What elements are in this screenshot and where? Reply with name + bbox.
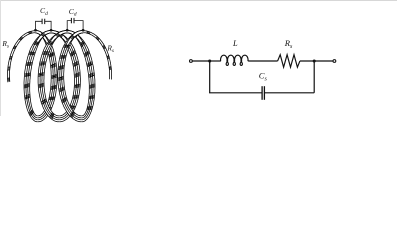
hatching on segment G: [58, 35, 74, 117]
wire: inductor to resistor: [248, 60, 277, 62]
wire segment H: [83, 30, 112, 79]
hatching on segment C: [24, 33, 45, 116]
hatching on segment E: [39, 33, 60, 119]
wire segment B: [36, 30, 58, 122]
inductor L: [221, 55, 249, 65]
wire: node A to inductor: [210, 60, 221, 62]
left input terminal: [190, 60, 193, 63]
node B junction dot: [313, 59, 316, 62]
wire segment E: [38, 30, 67, 122]
node A junction dot: [208, 59, 211, 62]
svg-text:Cd: Cd: [40, 6, 48, 17]
svg-text:Rs: Rs: [1, 39, 9, 50]
wire segment F: [67, 30, 95, 122]
wire: capacitor to bottom rail right: [265, 92, 314, 94]
right output terminal: [333, 60, 336, 63]
svg-text:Rs: Rs: [284, 38, 293, 50]
junction dot on turn top, left: [34, 29, 37, 32]
capacitor C_d2 bracket wires: [67, 18, 83, 30]
wire: left terminal to node A: [192, 60, 209, 62]
capacitor C_d1 bracket wires: [36, 19, 52, 31]
wire segment A: [7, 30, 35, 82]
svg-text:Cd: Cd: [69, 7, 77, 18]
wire: node A down to bottom rail: [209, 61, 211, 93]
hatching on segment F: [74, 33, 95, 109]
junction dot on turn top, right: [50, 29, 53, 32]
junction dot on turn top, right: [82, 29, 85, 32]
resistor R_s zigzag: [278, 55, 300, 67]
wire: resistor to node B: [300, 60, 333, 62]
equivalent circuit: [192, 55, 333, 100]
scan edge top: [0, 0, 397, 2]
svg-text:L: L: [232, 39, 238, 48]
capacitor C_s plates: [261, 86, 263, 100]
svg-text:Rs: Rs: [106, 44, 114, 55]
wire segment D: [51, 30, 81, 122]
wire: bottom rail left, to capacitor: [209, 92, 261, 94]
hatching on segment A: [7, 31, 32, 81]
hatching on segment B: [41, 33, 57, 111]
wire segment G: [58, 30, 84, 122]
wire segment C: [24, 30, 51, 122]
hatching on segment H: [87, 31, 112, 70]
wire: node B down to bottom rail: [313, 61, 315, 93]
junction dot on turn top, left: [66, 29, 69, 32]
scan edge left: [0, 0, 2, 116]
hatching on segment D: [59, 33, 79, 109]
svg-text:Cs: Cs: [259, 71, 268, 83]
